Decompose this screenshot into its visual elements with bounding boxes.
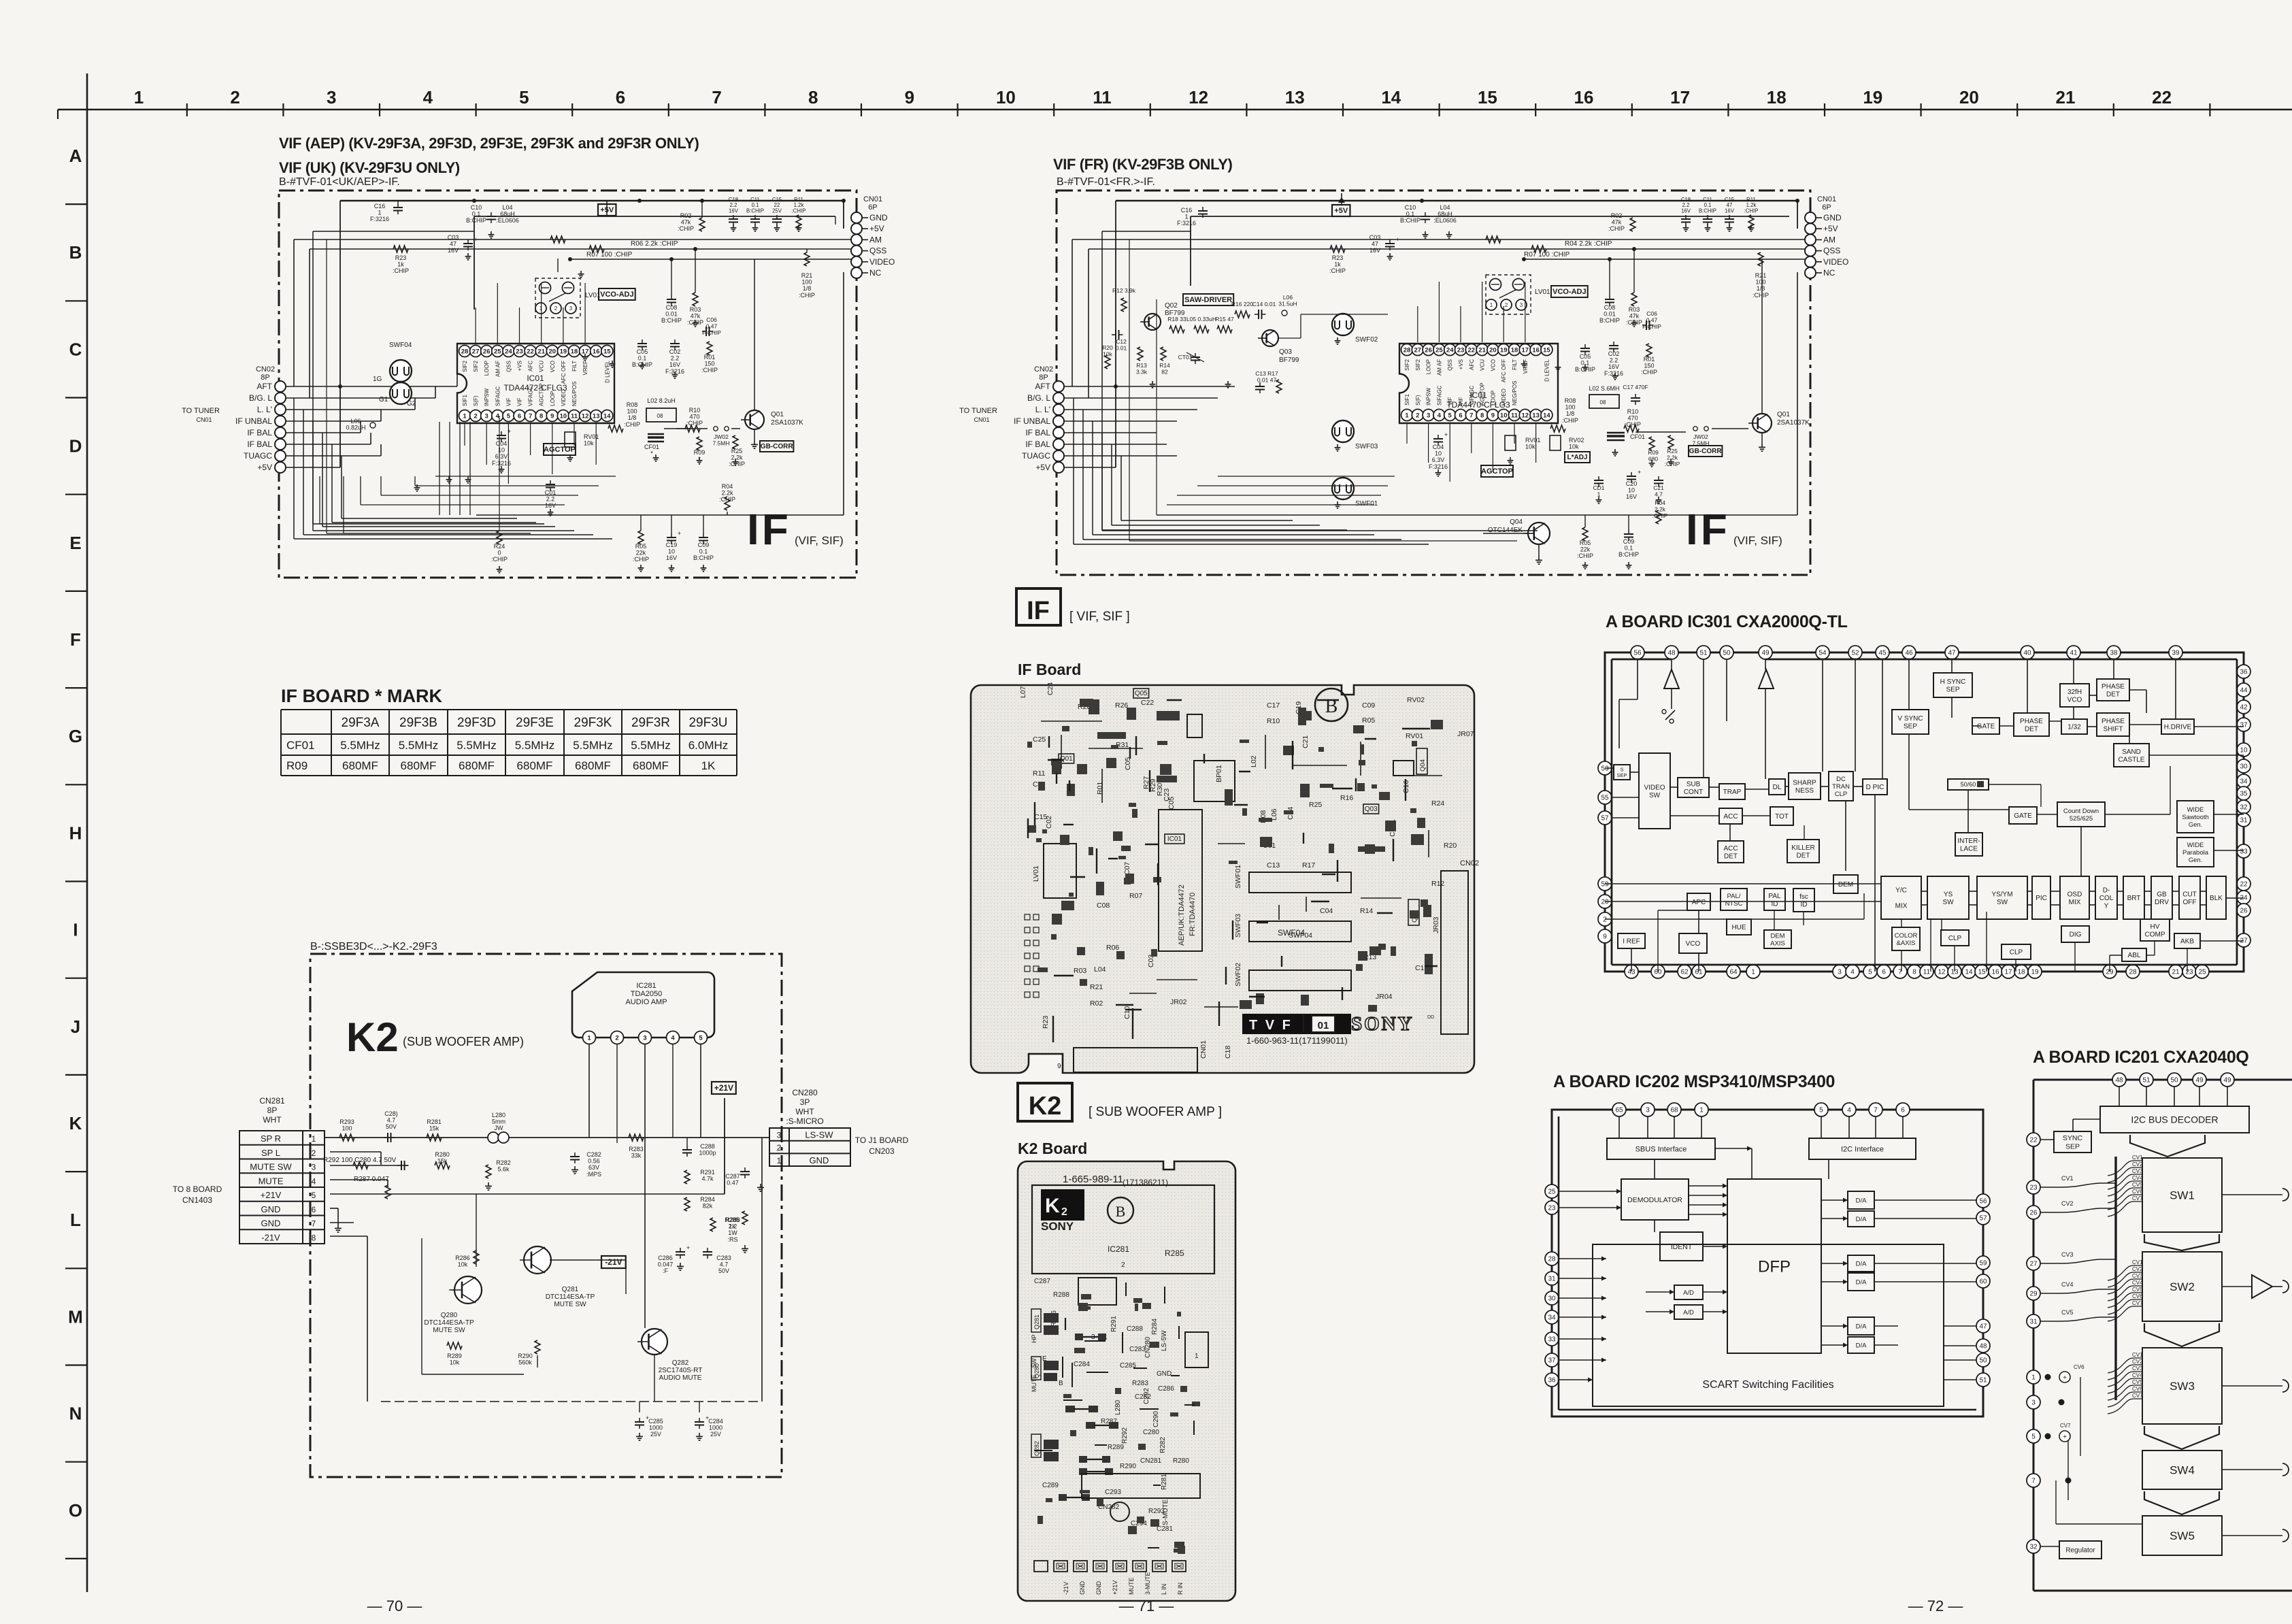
IC301 block BRT <box>2123 876 2144 919</box>
svg-text:22: 22 <box>1468 346 1476 354</box>
svg-text:21: 21 <box>537 348 545 355</box>
svg-text:Q03: Q03 <box>1279 348 1292 356</box>
svg-text:5.5MHz: 5.5MHz <box>399 739 439 752</box>
svg-text:01: 01 <box>1318 1020 1329 1031</box>
svg-text:R284: R284 <box>700 1196 715 1203</box>
svg-text:10: 10 <box>996 87 1016 107</box>
svg-text:L. L': L. L' <box>1035 405 1050 414</box>
svg-text:INPSW: INPSW <box>484 388 490 406</box>
capacitor C287 0.47 <box>740 1171 750 1172</box>
svg-text:RV01: RV01 <box>1406 732 1423 740</box>
svg-text:+VS: +VS <box>1458 359 1464 369</box>
svg-text:LV01: LV01 <box>1032 865 1040 882</box>
resistor R03 FR <box>1631 293 1637 306</box>
svg-text:C17: C17 <box>1267 701 1280 710</box>
IC301 block KILLER <box>1787 840 1819 863</box>
svg-text:IC281: IC281 <box>1108 1244 1129 1254</box>
svg-text:R10: R10 <box>689 407 701 414</box>
svg-text:1W: 1W <box>728 1229 737 1236</box>
svg-text:31: 31 <box>1548 1276 1556 1283</box>
svg-text:+5V: +5V <box>1035 463 1050 472</box>
svg-text:1G: 1G <box>373 376 382 383</box>
svg-text:C10: C10 <box>1123 1006 1131 1019</box>
K2 board marking B <box>1108 1197 1133 1223</box>
svg-text:29F3D: 29F3D <box>457 716 496 730</box>
transistor Q280 DTC144ESA-TP <box>454 1276 482 1304</box>
wire routing FR <box>1101 231 1103 531</box>
svg-text:5: 5 <box>507 412 511 420</box>
power +5V FR <box>1332 205 1350 216</box>
svg-text:SHIFT: SHIFT <box>2104 725 2123 733</box>
svg-text:C02: C02 <box>1608 350 1620 357</box>
svg-text:30: 30 <box>1548 1295 1556 1303</box>
svg-text:R283: R283 <box>1132 1380 1148 1387</box>
svg-text:IF: IF <box>1027 597 1050 625</box>
svg-text:R01: R01 <box>704 354 716 361</box>
svg-text:9: 9 <box>1603 933 1607 941</box>
capacitor C14 0.01 <box>1258 310 1259 319</box>
svg-text:YS/YM: YS/YM <box>1991 891 2012 898</box>
svg-text:AXIS: AXIS <box>1770 940 1785 947</box>
svg-text:C09: C09 <box>698 542 710 548</box>
svg-text:49: 49 <box>2223 1077 2231 1084</box>
svg-text:GND: GND <box>1157 1370 1172 1378</box>
svg-text:Gen.: Gen. <box>2189 857 2203 864</box>
svg-text:R20: R20 <box>1444 842 1457 850</box>
K2 board boxed Q282 <box>1031 1434 1041 1457</box>
svg-text:+: + <box>1638 469 1641 476</box>
IF board SWF rect 1 <box>1249 872 1351 893</box>
svg-text:Y/C: Y/C <box>1895 887 1907 895</box>
svg-text:R03: R03 <box>1074 967 1086 975</box>
svg-text:18: 18 <box>571 348 578 355</box>
svg-text:32fH: 32fH <box>2067 689 2082 696</box>
svg-text:2: 2 <box>1061 1206 1067 1218</box>
pot RV01 10k FR <box>1505 435 1516 450</box>
svg-text:0.1: 0.1 <box>1406 211 1415 218</box>
svg-text:CN281: CN281 <box>1140 1457 1162 1465</box>
svg-text:26: 26 <box>2029 1210 2038 1217</box>
svg-text:100: 100 <box>627 408 637 415</box>
IF board marking B <box>1315 689 1348 721</box>
svg-text:VCU: VCU <box>1480 359 1486 371</box>
capacitor C15 <box>772 218 782 220</box>
svg-text:R282: R282 <box>1159 1437 1167 1453</box>
svg-text:R10: R10 <box>1627 408 1639 415</box>
IC301 block APC <box>1687 893 1710 910</box>
svg-text:C06: C06 <box>706 316 717 323</box>
K2 wires <box>325 1137 769 1138</box>
resistor R12 3.9k <box>1121 298 1127 312</box>
resistor R07 100 FR <box>1486 236 1501 243</box>
svg-text:Q282: Q282 <box>1033 1441 1040 1456</box>
svg-text:B/G. L: B/G. L <box>1027 393 1050 403</box>
svg-text:10: 10 <box>668 548 675 555</box>
svg-text:470: 470 <box>689 414 699 420</box>
resistor R24 0 <box>497 531 502 544</box>
resistor R284 82k <box>684 1197 690 1211</box>
svg-text:IF UNBAL: IF UNBAL <box>235 416 272 426</box>
IC301 block D- <box>2095 876 2117 919</box>
capacitor C11 <box>750 218 760 220</box>
svg-text:SW3: SW3 <box>2170 1380 2195 1393</box>
IC301 wires <box>1671 659 1672 669</box>
svg-text::F: :F <box>663 1267 669 1274</box>
svg-text:1: 1 <box>134 87 144 107</box>
svg-text:L280: L280 <box>492 1112 505 1118</box>
svg-text:SW5: SW5 <box>2170 1529 2195 1542</box>
svg-text:2: 2 <box>554 305 558 312</box>
svg-text:1: 1 <box>587 1034 591 1042</box>
svg-text:51: 51 <box>1979 1377 1987 1385</box>
IC202 block SBUS Interface <box>1607 1138 1715 1159</box>
svg-text:10: 10 <box>2240 747 2248 755</box>
svg-text:23: 23 <box>1457 346 1465 354</box>
svg-text:C03: C03 <box>1369 234 1381 241</box>
IF board component blobs <box>1089 699 1099 714</box>
svg-text:2: 2 <box>1416 412 1419 419</box>
svg-text:50V: 50V <box>386 1123 397 1130</box>
svg-text:VIDEO: VIDEO <box>1823 257 1848 267</box>
K2 board logo <box>1041 1189 1084 1221</box>
svg-text:82k: 82k <box>703 1203 713 1210</box>
page ruler top border <box>58 109 2292 111</box>
svg-text:17: 17 <box>1522 346 1529 354</box>
transistor Q01 FR <box>1753 414 1772 433</box>
IC281 TDA2050 audio amp <box>572 972 714 1038</box>
capacitor C11 FR <box>1703 218 1712 220</box>
svg-text:CV2: CV2 <box>2132 1266 2143 1272</box>
svg-text:C286: C286 <box>658 1255 673 1261</box>
svg-text:DET: DET <box>2025 725 2038 733</box>
svg-text:12: 12 <box>1522 412 1529 419</box>
IC202 top pin circles <box>1612 1103 1626 1116</box>
svg-text:19: 19 <box>1500 346 1508 354</box>
svg-text:C288: C288 <box>700 1143 715 1150</box>
svg-text:5.6k: 5.6k <box>497 1166 510 1173</box>
svg-text:J: J <box>71 1016 80 1037</box>
svg-text:Count Down: Count Down <box>2063 808 2099 815</box>
svg-text:9: 9 <box>1057 1063 1061 1070</box>
svg-text:AFT: AFT <box>1035 382 1050 391</box>
svg-text:(VIF, SIF): (VIF, SIF) <box>795 534 844 547</box>
svg-text:H.DRIVE: H.DRIVE <box>2164 724 2192 731</box>
svg-text::CHIP: :CHIP <box>1625 421 1641 428</box>
transistor Q03 BF799 <box>1262 330 1278 346</box>
svg-text:12: 12 <box>1938 969 1946 976</box>
capacitor C282 0.56 <box>570 1156 580 1157</box>
svg-text:VIF (FR) (KV-29F3B ONLY): VIF (FR) (KV-29F3B ONLY) <box>1053 156 1232 173</box>
svg-text:D/A: D/A <box>1856 1323 1867 1330</box>
svg-text:SP R: SP R <box>261 1133 281 1144</box>
resistor R16 220 <box>1235 311 1250 318</box>
IC202 block SCART <box>1593 1244 1944 1406</box>
svg-text:CV5: CV5 <box>2132 1379 2143 1385</box>
svg-text:R291: R291 <box>1110 1316 1118 1332</box>
svg-text:21: 21 <box>2056 87 2076 107</box>
svg-text:R285: R285 <box>1165 1248 1184 1258</box>
svg-text:B:CHIP: B:CHIP <box>1400 217 1421 224</box>
svg-text:13: 13 <box>1285 87 1305 107</box>
svg-text:26: 26 <box>2240 908 2248 915</box>
svg-text:27: 27 <box>472 348 480 355</box>
svg-text:8: 8 <box>539 412 543 420</box>
svg-text:R09: R09 <box>1648 449 1659 456</box>
svg-text:+21V: +21V <box>714 1083 733 1093</box>
svg-text:R03: R03 <box>1629 306 1640 313</box>
svg-text:R14: R14 <box>1360 907 1373 915</box>
svg-text:CLP: CLP <box>1835 791 1847 798</box>
svg-text:C12: C12 <box>1116 338 1127 345</box>
svg-text:15: 15 <box>603 348 611 355</box>
svg-text:C24: C24 <box>1046 682 1054 695</box>
IC301 block V SYNC <box>1892 710 1929 734</box>
IC301 block CLP <box>2002 944 2031 959</box>
svg-text:R IN: R IN <box>1177 1582 1184 1595</box>
svg-text:51: 51 <box>1699 650 1708 657</box>
svg-text:17: 17 <box>1670 87 1690 107</box>
IC202 block I2C Interface <box>1809 1138 1916 1159</box>
svg-text:5: 5 <box>519 87 529 107</box>
svg-text:R15 47: R15 47 <box>1215 316 1234 322</box>
svg-text:29: 29 <box>2029 1291 2038 1298</box>
svg-text:CN01: CN01 <box>1199 1040 1208 1059</box>
svg-text:PHASE: PHASE <box>2102 683 2125 691</box>
svg-text:16V: 16V <box>1369 247 1380 254</box>
svg-text:2.2k: 2.2k <box>721 490 733 497</box>
svg-text:5: 5 <box>312 1191 316 1200</box>
svg-text:0.01: 0.01 <box>1604 311 1616 318</box>
svg-text:AKB: AKB <box>2180 938 2194 946</box>
svg-text:7.5MH: 7.5MH <box>712 440 729 447</box>
svg-text:R283: R283 <box>629 1146 644 1153</box>
svg-text:14: 14 <box>603 412 611 420</box>
svg-text::MPS: :MPS <box>586 1171 601 1178</box>
svg-text:DET: DET <box>2106 691 2120 698</box>
svg-text:CV6: CV6 <box>2074 1364 2085 1370</box>
svg-text:TO TUNER: TO TUNER <box>959 407 997 415</box>
svg-text:LS-SW: LS-SW <box>805 1130 833 1140</box>
svg-text:NEG/POS: NEG/POS <box>571 382 578 406</box>
svg-text:48: 48 <box>1667 650 1676 657</box>
capacitor C01 2.2 <box>546 484 555 485</box>
svg-text::EL0606: :EL0606 <box>1433 217 1457 224</box>
svg-text:SONY: SONY <box>1351 1013 1414 1035</box>
svg-text:-21V: -21V <box>261 1232 280 1242</box>
svg-text:680: 680 <box>1648 456 1658 463</box>
IC301 block PHASE <box>2097 679 2129 701</box>
capacitor C16 <box>393 207 403 208</box>
svg-text:CN280: CN280 <box>792 1088 818 1097</box>
resistor R280 15k <box>435 1162 450 1169</box>
svg-text:H: H <box>69 823 82 843</box>
resistor R293 100 <box>339 1134 354 1141</box>
svg-text:WIDE: WIDE <box>2187 806 2204 814</box>
IC301 block ACC <box>1718 841 1744 863</box>
svg-text::CHIP: :CHIP <box>792 208 806 214</box>
svg-text:0.47: 0.47 <box>727 1180 739 1187</box>
svg-text:SWF01: SWF01 <box>1355 500 1378 508</box>
svg-text:R18 33: R18 33 <box>1167 316 1186 322</box>
IC202 block A/D 2 <box>1674 1305 1703 1319</box>
svg-text:DRV: DRV <box>2155 899 2169 906</box>
svg-text:VCU: VCU <box>539 361 545 372</box>
svg-text:+: + <box>474 236 478 243</box>
coil L02 FR <box>1589 395 1619 408</box>
power -21V label <box>601 1256 626 1268</box>
svg-text:6: 6 <box>518 412 521 420</box>
svg-text:47: 47 <box>1948 650 1956 657</box>
svg-text::CHIP: :CHIP <box>686 420 703 427</box>
svg-text:+5V: +5V <box>869 224 884 233</box>
IC301 block SHARP <box>1789 773 1821 799</box>
svg-text:2.2k: 2.2k <box>1667 454 1678 461</box>
svg-text:C20: C20 <box>1626 480 1638 487</box>
svg-text:680MF: 680MF <box>575 759 611 772</box>
svg-text:1000p: 1000p <box>699 1150 716 1157</box>
svg-text:GB-CORR: GB-CORR <box>1689 448 1723 455</box>
svg-text:10k: 10k <box>1569 444 1579 450</box>
svg-text:D/A: D/A <box>1856 1216 1867 1223</box>
capacitor C03 FR <box>1385 243 1395 244</box>
svg-text:31.5uH: 31.5uH <box>1278 301 1297 308</box>
svg-text:C07: C07 <box>1123 862 1131 875</box>
K2 board PCB outline <box>1018 1161 1235 1601</box>
svg-text:L04: L04 <box>1440 204 1450 211</box>
svg-text:R08: R08 <box>1565 397 1576 404</box>
svg-text:5.5MHz: 5.5MHz <box>631 739 671 752</box>
K2 board IC281 region <box>1032 1185 1214 1274</box>
svg-text:H SYNC: H SYNC <box>1940 678 1966 686</box>
svg-text:8P: 8P <box>261 374 269 382</box>
svg-text:CV4: CV4 <box>2132 1280 2143 1286</box>
svg-text:10: 10 <box>1500 412 1508 419</box>
svg-text:7: 7 <box>1874 1107 1878 1114</box>
wire IC pin stubs FR <box>1406 423 1408 444</box>
svg-text:DET: DET <box>1797 852 1810 859</box>
junction dots <box>472 199 476 203</box>
svg-text:B: B <box>69 242 82 263</box>
capacitor C04 10 <box>497 435 506 436</box>
svg-text:C: C <box>69 339 82 359</box>
svg-text:CV2: CV2 <box>2132 1161 2143 1167</box>
svg-text:DL: DL <box>1773 784 1782 791</box>
svg-text:2: 2 <box>1121 1261 1125 1269</box>
svg-text:08: 08 <box>1600 399 1606 405</box>
svg-text:I REF: I REF <box>1623 938 1640 946</box>
IC301 block AKB <box>2174 933 2200 948</box>
svg-text:BLK: BLK <box>2210 895 2223 902</box>
svg-text:3-MUTE: 3-MUTE <box>1144 1572 1151 1595</box>
svg-text:I: I <box>73 920 78 940</box>
svg-text:R293: R293 <box>339 1118 354 1125</box>
svg-text:LOOP: LOOP <box>550 391 556 406</box>
svg-text:R281: R281 <box>427 1118 442 1125</box>
svg-text:M: M <box>68 1306 83 1327</box>
svg-text:R288: R288 <box>1053 1291 1069 1299</box>
IC301 block WIDE <box>2177 838 2214 867</box>
svg-text:B:CHIP: B:CHIP <box>1618 551 1639 558</box>
svg-text:SAW-DRIVER: SAW-DRIVER <box>1184 296 1232 304</box>
svg-text:AM: AM <box>1823 235 1836 244</box>
svg-text:4.7k: 4.7k <box>701 1176 714 1182</box>
svg-text:13: 13 <box>1532 412 1540 419</box>
svg-text:57: 57 <box>1979 1215 1987 1223</box>
capacitor C08 0.01 <box>667 299 676 300</box>
svg-text:HP: HP <box>1031 1334 1037 1343</box>
svg-text:R26: R26 <box>1115 701 1128 710</box>
wire QSS line <box>310 248 851 250</box>
svg-text:DIG: DIG <box>2070 931 2082 939</box>
svg-text:22: 22 <box>2029 1137 2038 1144</box>
svg-text:0.82uH: 0.82uH <box>346 425 365 431</box>
resistor R04b FR <box>1656 510 1661 524</box>
svg-text:100: 100 <box>801 279 812 286</box>
svg-text:DET: DET <box>1724 852 1738 860</box>
svg-text:10k: 10k <box>1103 351 1112 358</box>
resistor R20 10k <box>1105 355 1110 369</box>
IC301 block H SYNC <box>1933 673 1972 697</box>
svg-text:Q04: Q04 <box>1510 518 1523 526</box>
resistor R01 FR <box>1646 344 1652 357</box>
svg-text:12: 12 <box>1189 87 1208 107</box>
svg-text:49: 49 <box>2195 1077 2204 1084</box>
svg-text:1/8: 1/8 <box>1566 410 1575 417</box>
svg-text:JR03: JR03 <box>1432 916 1440 933</box>
svg-text:36: 36 <box>1548 1377 1556 1385</box>
svg-text:14: 14 <box>1543 412 1550 419</box>
capacitor C283 4.7 <box>703 1251 712 1253</box>
svg-text:1: 1 <box>2031 1374 2036 1382</box>
svg-text:4.7: 4.7 <box>387 1117 396 1124</box>
svg-text:16: 16 <box>1532 346 1540 354</box>
svg-text:R08: R08 <box>627 401 638 408</box>
IC301 amp triangles <box>1664 669 1679 689</box>
svg-text:25V: 25V <box>710 1431 721 1438</box>
IC301 block GATE <box>1972 718 1999 734</box>
svg-text:R04: R04 <box>722 483 733 490</box>
wire top +B bus <box>340 200 844 202</box>
svg-text:Q02: Q02 <box>1165 302 1178 310</box>
svg-text:R290: R290 <box>518 1353 533 1359</box>
svg-text:GND: GND <box>810 1155 829 1165</box>
svg-text:16V: 16V <box>669 361 680 368</box>
wire CN02 fanout FR <box>1064 386 1235 387</box>
svg-text:B:CHIP: B:CHIP <box>693 554 714 561</box>
IC202 block DEMODULATOR <box>1621 1179 1689 1220</box>
svg-text:GATE: GATE <box>1977 723 1995 731</box>
svg-text:16V: 16V <box>545 502 556 509</box>
svg-text:1: 1 <box>1195 1353 1199 1360</box>
svg-text:COLOR: COLOR <box>1895 932 1918 940</box>
saw filter SWF01 <box>1332 478 1354 499</box>
IC201 block Regulator <box>2059 1541 2102 1559</box>
svg-text:Y: Y <box>2104 903 2109 910</box>
jumper JW02 7.5MH <box>714 427 718 431</box>
svg-text:Q01: Q01 <box>1777 411 1790 418</box>
svg-text:2.2: 2.2 <box>729 1223 737 1230</box>
IC201 node dots <box>2045 1374 2051 1380</box>
svg-text:1: 1 <box>312 1134 316 1144</box>
svg-text:R04 2.2k :CHIP: R04 2.2k :CHIP <box>1565 240 1612 248</box>
IC301 block OSD <box>2060 876 2089 919</box>
svg-text:16V: 16V <box>729 208 739 214</box>
svg-text::CHIP: :CHIP <box>624 421 640 428</box>
IC201 wires <box>2119 1087 2120 1106</box>
IC201 output half circles <box>2282 1189 2289 1201</box>
ceramic filter CF01 <box>648 433 664 435</box>
svg-text:L02 S.6MH: L02 S.6MH <box>1589 385 1619 392</box>
